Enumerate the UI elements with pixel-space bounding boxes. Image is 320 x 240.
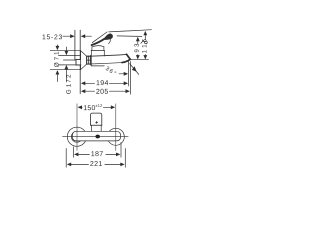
dimension 93 — [134, 37, 139, 60]
dimension G1/2 extension lines — [59, 55, 82, 65]
dimension 205 — [81, 89, 130, 94]
left inner circle — [71, 131, 82, 142]
S-union body box — [76, 60, 81, 66]
G1/2 union pipe bottom edge — [64, 59, 77, 61]
left escutcheon circle — [67, 127, 86, 146]
centerline left union — [76, 104, 78, 151]
label Ø71 (rotated) — [54, 52, 59, 67]
label G1/2 (rotated) — [66, 75, 71, 94]
leader arrow for 36 deg — [119, 72, 128, 76]
body bar (front view) — [72, 131, 120, 141]
right escutcheon circle — [107, 128, 124, 145]
flow direction arrow — [130, 64, 139, 75]
handle neck (front view) — [91, 125, 101, 131]
spout end face cut — [127, 54, 131, 59]
union nut — [87, 56, 91, 64]
dimension 221 — [67, 161, 125, 166]
dimension 15-23 arrows — [63, 34, 92, 38]
spout (side view) — [87, 54, 131, 64]
faucet body (side view) — [91, 51, 104, 66]
extension line from handle top (sloped, for 116) — [109, 30, 152, 32]
dimension Ø71 extension lines — [50, 51, 80, 70]
cartridge dome under lever — [92, 46, 104, 51]
body inlet ring — [90, 55, 92, 65]
dimension Ø71 arrows — [56, 45, 60, 82]
dimension 15-23 label — [43, 34, 62, 39]
extension line for 93 top — [117, 35, 142, 38]
aerator outlet (black) — [95, 135, 100, 139]
dimension 221 extension lines — [66, 149, 125, 168]
wall face line — [79, 30, 81, 94]
dimension 187 — [74, 151, 120, 156]
handle dot — [96, 121, 98, 123]
spout tip extension lines (for 194/205) — [129, 62, 131, 95]
handle knob (front view) — [91, 113, 102, 125]
escutcheon cone (side view) — [81, 51, 87, 70]
dimension 187 extension lines — [73, 143, 121, 158]
wall line (15-23 left reference) — [74, 30, 76, 60]
dimension 194 — [81, 80, 128, 85]
horizontal centerline — [63, 136, 129, 138]
handle swing angle mark — [141, 40, 147, 44]
dimension 150 +/-12 — [78, 104, 116, 110]
dimension G1/2 arrows — [65, 47, 69, 82]
centerline right union — [115, 104, 117, 151]
dimension 116 — [142, 31, 147, 60]
handle lever (side view) — [92, 32, 113, 45]
extension line at spout level — [129, 59, 149, 61]
label 36 deg — [106, 67, 117, 73]
